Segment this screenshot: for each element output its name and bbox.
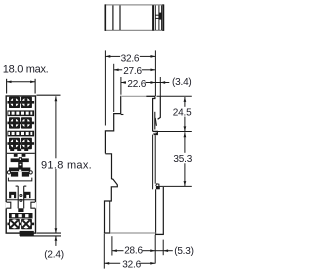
dim 91.8 max extension line top [37, 94, 61, 96]
side view rear face upper [153, 96, 155, 131]
side view left profile [105, 96, 121, 234]
dim 35.3 dimension line [184, 132, 186, 186]
dim 24.5 extension lines [157, 95, 192, 97]
side view flange tick [121, 114, 124, 116]
front view unit 3 lower tabs and divider [7, 149, 35, 157]
svg-text:22.6: 22.6 [127, 79, 146, 90]
front view terminal slot band 2 [7, 131, 34, 137]
dim 5.3 arrow [155, 250, 163, 252]
svg-text:(3.4): (3.4) [172, 77, 192, 88]
side view top edge [121, 95, 147, 97]
side view left foot cap [104, 232, 110, 234]
top view DIN latch block [152, 5, 154, 30]
dim 35.3 bottom extension line [158, 185, 192, 187]
side view right foot cap [155, 233, 164, 235]
front view side windows [6, 202, 37, 208]
dim 22.6 dimension line [121, 82, 155, 84]
side view bottom edge [110, 232, 156, 234]
side view latch step [153, 131, 158, 134]
front view relay latch assembly [7, 157, 32, 181]
svg-text:32.6: 32.6 [121, 54, 140, 65]
front view center channel [16, 186, 27, 208]
side view DIN latch upper [158, 96, 161, 119]
front view flank blocks [7, 192, 35, 200]
svg-text:18.0 max.: 18.0 max. [3, 64, 49, 76]
svg-text:(5.3): (5.3) [174, 246, 194, 257]
front view channel bottom cap [18, 208, 23, 212]
front view bottom tab [20, 231, 34, 236]
dim 3.4 arrow [155, 82, 160, 84]
front view terminal slot band 1 [7, 110, 34, 116]
front view outer box [6, 96, 35, 233]
dim 32.6 top dimension line [105, 55, 155, 57]
svg-text:27.6: 27.6 [123, 66, 142, 77]
dim 27.6 dimension line [114, 69, 156, 71]
front view bottom slot band [9, 213, 33, 218]
svg-text:28.6: 28.6 [124, 246, 143, 257]
svg-text:(2.4): (2.4) [44, 250, 64, 261]
svg-text:32.6: 32.6 [122, 259, 141, 270]
front view terminal unit 3 screws [7, 138, 34, 149]
svg-text:91.8 max.: 91.8 max. [41, 159, 92, 171]
side view inner wall line [109, 202, 111, 234]
dim 28.6 dimension line [112, 250, 155, 252]
dim 91.8 max dimension line [55, 96, 57, 233]
dim 18.0 max extension lines [7, 79, 35, 94]
side view lower latch [156, 184, 159, 186]
top view outline [105, 4, 163, 31]
svg-text:24.5: 24.5 [173, 108, 192, 119]
svg-text:35.3: 35.3 [173, 154, 192, 165]
side view rear face lower [152, 135, 154, 190]
dim 18.0 max dimension line [7, 81, 35, 83]
dim 32.6 bottom dimension line [104, 262, 155, 264]
bottom dims extension lines [104, 234, 163, 269]
front view bottom screw unit [7, 219, 34, 229]
dim 24.5 dimension line [184, 97, 186, 131]
dim 32.6 top extension lines [105, 50, 160, 125]
dim 2.4 lines [37, 232, 62, 234]
top view inner partition lines [113, 5, 120, 30]
front view terminal unit 1 screws [7, 97, 34, 108]
front view terminal unit 2 screws [7, 117, 34, 128]
